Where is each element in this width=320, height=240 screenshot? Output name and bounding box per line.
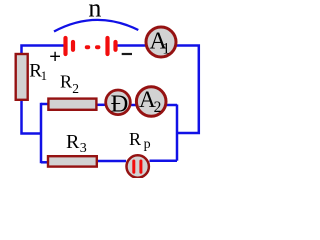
battery cell 1 long plate [63,38,67,54]
svg-text:Đ: Đ [111,90,129,117]
svg-text:R: R [60,72,72,92]
rheostat Rp [127,155,149,177]
wire R3 to rheostat Rp [97,160,126,163]
wire top-left from R1 top to battery [22,46,64,55]
wire right junction vertical [176,105,179,161]
wire R1 bottom to left junction [22,100,42,134]
svg-text:2: 2 [72,81,79,96]
wire Rp to right junction [150,159,178,162]
battery dash 2 [95,45,100,49]
resistor R1 [16,54,28,100]
svg-text:1: 1 [41,69,47,83]
ammeter A1 [146,27,176,57]
minus sign [122,53,132,55]
wire stub to R2 [41,103,48,106]
wire A1 right to right rail down to mid tap [176,46,199,134]
wire lamp D to ammeter A2 [130,104,137,107]
svg-text:2: 2 [154,99,162,116]
brace arc over battery [54,20,138,32]
svg-text:1: 1 [162,40,170,57]
battery cell n long plate [105,38,109,54]
ammeter A2 [136,87,166,117]
wire battery to ammeter A1 [118,44,147,47]
svg-text:n: n [88,0,101,23]
wire R2 to lamp D [97,104,106,107]
battery cell 1 short plate [71,42,75,50]
battery cell n short plate [113,42,117,50]
plus sign [50,52,60,61]
svg-text:p: p [144,137,151,152]
battery dash 1 [85,45,90,49]
resistor R3 [48,156,97,166]
svg-text:R: R [129,129,141,149]
wire A2 to right junction [166,104,177,107]
rheostat bar 1 [132,161,135,172]
svg-text:3: 3 [80,141,87,156]
resistor R2 [48,99,96,110]
rheostat bar 2 [139,161,142,172]
wire stub to R3 [41,161,48,164]
wire left junction vertical [40,103,43,163]
lamp D [106,90,131,115]
svg-text:R: R [66,131,80,153]
